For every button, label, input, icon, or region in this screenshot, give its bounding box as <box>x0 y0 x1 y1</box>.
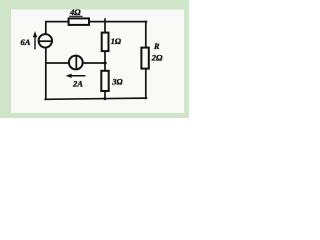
wire: 4-ohm resistor to top-right corner <box>89 21 146 23</box>
current source I1 6A (circle with horizontal bar) <box>39 34 52 47</box>
wire: right vertical top segment <box>145 22 147 48</box>
white schematic panel <box>11 10 184 114</box>
svg-text:1Ω: 1Ω <box>111 37 121 46</box>
resistor 1-ohm (middle branch upper) <box>102 33 109 52</box>
svg-text:R: R <box>153 42 160 51</box>
underline of 4-ohm label <box>69 15 82 17</box>
svg-text:3Ω: 3Ω <box>111 78 122 87</box>
current source I2 2A (circle with vertical bar) <box>69 56 83 70</box>
6A current direction arrow (up) <box>34 35 36 49</box>
resistor R 2-ohm (right branch) <box>141 48 148 69</box>
page background (green mat) <box>0 0 189 118</box>
wire: bottom horizontal <box>45 98 146 99</box>
wire: middle horizontal right of 2A source <box>83 62 106 64</box>
resistor 4-ohm (top) <box>69 18 89 25</box>
wire: middle branch below 3-ohm <box>104 91 106 99</box>
wire: left vertical below 6A source <box>45 48 47 100</box>
svg-text:2Ω: 2Ω <box>151 52 163 62</box>
wire: middle branch above 1-ohm <box>104 19 106 32</box>
svg-text:4Ω: 4Ω <box>69 7 81 17</box>
svg-text:2A: 2A <box>72 78 83 88</box>
wire: right vertical bottom segment <box>145 69 147 99</box>
wire: middle horizontal left of 2A source <box>46 62 69 64</box>
2A current direction arrow (left) <box>69 75 86 77</box>
svg-text:6A: 6A <box>20 37 30 47</box>
wire: middle branch between 1-ohm and 3-ohm <box>104 51 106 71</box>
wire: top-left corner to 4-ohm resistor <box>46 22 69 34</box>
junction node at middle branch / bottom wire <box>104 97 107 100</box>
junction node at middle branch / 2A wire <box>104 62 107 65</box>
resistor 3-ohm (middle branch lower) <box>101 71 108 91</box>
